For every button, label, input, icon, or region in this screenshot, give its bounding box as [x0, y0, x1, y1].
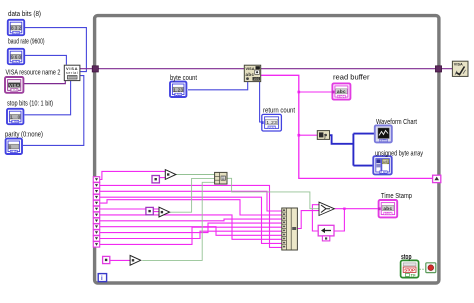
- svg-text:stop bits (10: 1 bit): stop bits (10: 1 bit): [7, 101, 53, 108]
- svg-text:VISA resource name 2: VISA resource name 2: [6, 69, 61, 76]
- wire: shift reg 0 to comparison: [100, 171, 165, 179]
- sub-VI: VISA Read: [244, 65, 260, 81]
- wire: byte array thick blue: [330, 134, 375, 166]
- control: byte count numeric terminal: [170, 82, 186, 97]
- svg-text:VISA: VISA: [9, 83, 20, 88]
- svg-text:Waveform Chart: Waveform Chart: [376, 119, 417, 126]
- wire: shift reg 1: [100, 185, 282, 247]
- svg-text:U32: U32: [175, 93, 181, 97]
- control: parity numeric terminal: [6, 139, 22, 154]
- svg-text:832: 832: [11, 26, 21, 31]
- constant: empty string 2: [146, 207, 153, 214]
- wire: shift reg 4: [100, 200, 282, 215]
- comparison node 1: [165, 170, 176, 180]
- tunnel: VISA wire right border: [435, 66, 441, 72]
- node junction: [343, 208, 345, 210]
- svg-text:abc: abc: [338, 95, 344, 99]
- node: feedback: [318, 225, 334, 241]
- wire: shift reg 5: [100, 208, 159, 210]
- wire: stop bits to config VI: [25, 80, 71, 115]
- wire: boolean comparison2 to build array: [170, 178, 214, 212]
- wire: stop button to loop condition: [419, 268, 425, 270]
- wire: select out to Time Stamp: [334, 209, 378, 231]
- svg-text:TF: TF: [411, 273, 417, 277]
- svg-text:VISA: VISA: [246, 67, 255, 71]
- svg-text:VISA: VISA: [454, 63, 463, 67]
- svg-text:byte count: byte count: [170, 75, 197, 82]
- shift register right: [433, 175, 441, 182]
- svg-text:data bits (8): data bits (8): [8, 11, 41, 18]
- svg-text:unsigned byte array: unsigned byte array: [375, 150, 423, 157]
- svg-text:U32: U32: [269, 126, 275, 130]
- svg-text:read buffer: read buffer: [333, 74, 370, 81]
- node: select: [319, 202, 334, 215]
- iteration terminal i: [98, 274, 106, 282]
- indicator: read buffer string: [332, 83, 351, 99]
- wire: feedback node loop: [312, 205, 319, 231]
- wire: read string main pink: [261, 75, 433, 178]
- svg-text:[U8]: [U8]: [380, 170, 386, 174]
- wire: shift reg 6: [100, 215, 282, 239]
- while loop border: [95, 16, 439, 283]
- wire: boolean comparison1 to build array: [176, 174, 214, 176]
- wire: VISA Read to return count: [260, 80, 262, 123]
- node: concatenate strings: [282, 208, 298, 250]
- svg-text:1.23: 1.23: [173, 87, 183, 92]
- svg-text:I/O: I/O: [11, 88, 17, 92]
- svg-text:abc: abc: [246, 72, 255, 77]
- svg-text:U16: U16: [12, 120, 18, 124]
- wire: shift reg 11: [100, 227, 282, 244]
- indicator: Waveform Chart: [375, 125, 392, 142]
- wire: shift reg 9: [100, 223, 282, 233]
- wire: shift reg 2: [100, 191, 282, 211]
- svg-text:U32: U32: [13, 60, 19, 64]
- control: VISA resource name terminal: [5, 77, 23, 93]
- constant: empty string 1: [152, 176, 159, 183]
- svg-text:STOP: STOP: [404, 268, 415, 273]
- wire: baud rate to config VI: [25, 55, 66, 64]
- svg-text:960: 960: [11, 55, 21, 60]
- svg-text:wfm: wfm: [380, 139, 387, 143]
- comparison node 2: [159, 207, 170, 217]
- svg-text:return count: return count: [263, 107, 295, 114]
- comparison node 3: [130, 255, 141, 265]
- control: data bits (8) numeric terminal: [8, 20, 24, 35]
- wire: shift reg 7: [100, 219, 282, 221]
- svg-text:parity (0:none): parity (0:none): [5, 131, 43, 138]
- wire: branch to byte array conversion: [299, 134, 317, 136]
- svg-text:0: 0: [9, 144, 12, 149]
- node junction: [298, 134, 301, 137]
- wire: constant3 to comparison3: [110, 259, 130, 261]
- indicator: Time Stamp string: [378, 200, 397, 217]
- svg-text:abc: abc: [383, 206, 392, 211]
- wire: build array out to select: [227, 178, 319, 208]
- svg-text:U16: U16: [11, 150, 17, 154]
- wire: shift reg 10: [100, 231, 282, 238]
- svg-text:U8]: U8]: [383, 160, 389, 164]
- tunnel: VISA wire left border: [92, 66, 98, 72]
- constant: number 3: [103, 256, 110, 263]
- wire: shift reg 8: [100, 227, 282, 236]
- control: baud rate numeric terminal: [8, 49, 24, 64]
- sub-VI: VISA Configure Serial Port U0: [64, 65, 80, 80]
- wire: branch to read buffer: [299, 91, 332, 93]
- svg-text:U16: U16: [13, 31, 19, 35]
- wire: data bits to config VI: [25, 28, 86, 72]
- loop condition terminal: [426, 263, 436, 273]
- node junction: [298, 91, 301, 94]
- wire: boolean comparison3 to build array: [142, 182, 214, 260]
- wire: VISA resource purple through loop: [80, 68, 452, 70]
- svg-text:abc: abc: [337, 89, 346, 94]
- control: stop bits numeric terminal: [7, 109, 23, 124]
- wire: shift reg 3: [100, 197, 282, 243]
- stacked shift registers left (12): [93, 177, 99, 247]
- indicator: return count: [261, 114, 281, 131]
- wire: parity to config VI: [23, 76, 84, 146]
- indicator: unsigned byte array: [373, 156, 391, 174]
- control: stop button: [401, 260, 419, 277]
- svg-text:stop: stop: [401, 254, 412, 261]
- svg-text:abc: abc: [385, 212, 391, 216]
- sub-VI: VISA Close: [452, 61, 468, 76]
- wire: constant2 to comparison2: [154, 211, 159, 213]
- svg-text:100: 100: [253, 77, 259, 81]
- wire: concat out to select: [298, 211, 319, 229]
- svg-text:Time Stamp: Time Stamp: [381, 193, 412, 200]
- svg-text:serial: serial: [66, 71, 78, 75]
- wire: VISA resource name to config VI: [23, 80, 65, 84]
- wire: constant1 to comparison1: [160, 177, 166, 179]
- node: build array: [215, 172, 227, 184]
- wire: byte count to VISA Read: [188, 82, 248, 90]
- node: string to byte array conversion: [317, 131, 329, 140]
- svg-text:baud rate (9600): baud rate (9600): [8, 39, 45, 46]
